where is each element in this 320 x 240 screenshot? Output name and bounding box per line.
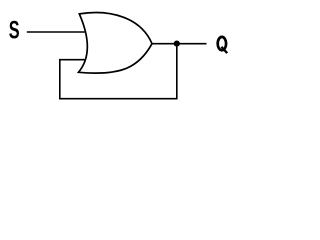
wire output (152, 43, 207, 45)
wire input S (27, 31, 88, 33)
wire feedback loop (60, 44, 177, 99)
label Q (218, 37, 228, 53)
svg-text:S: S (9, 17, 20, 44)
or-gate (79, 13, 153, 74)
junction dot (174, 41, 180, 47)
